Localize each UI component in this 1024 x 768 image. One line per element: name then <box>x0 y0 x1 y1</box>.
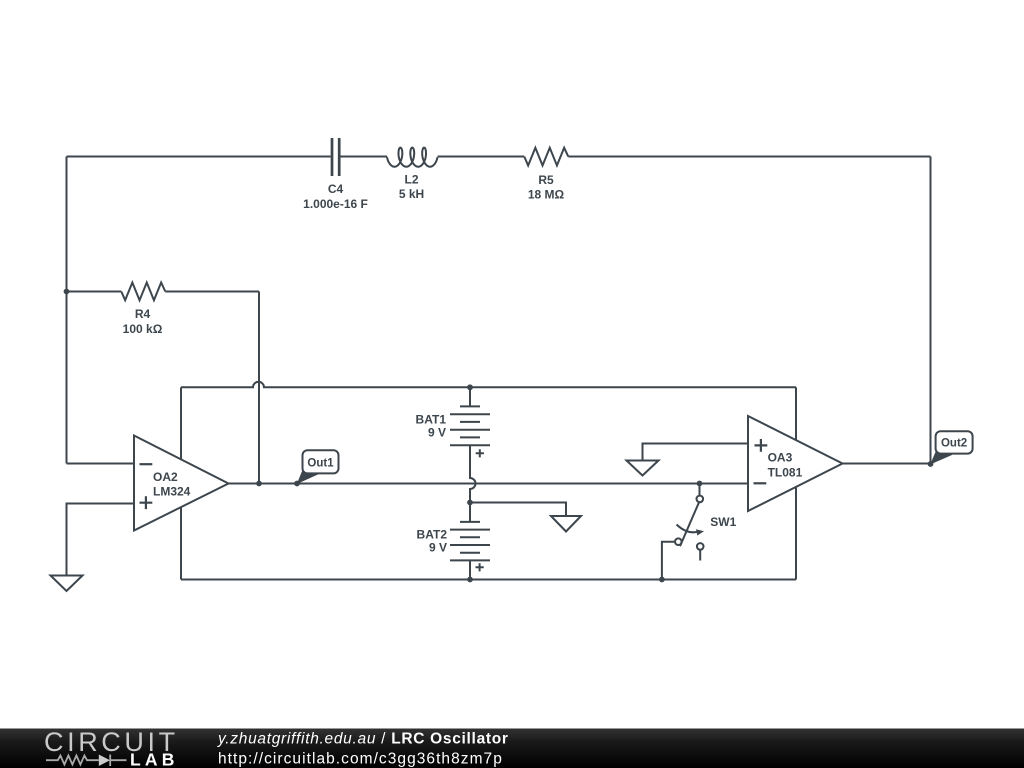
ground symbol middle <box>551 516 581 532</box>
OA3 non-inverting pin plus sign <box>755 439 768 452</box>
wire BAT2 bottom lead <box>469 560 471 579</box>
svg-text:BAT1: BAT1 <box>416 412 447 426</box>
svg-text:9 V: 9 V <box>429 541 447 555</box>
svg-text:y.zhuatgriffith.edu.au / LRC O: y.zhuatgriffith.edu.au / LRC Oscillator <box>217 731 509 748</box>
node Out1 anchor <box>294 481 300 487</box>
svg-text:R5: R5 <box>538 173 554 187</box>
svg-text:L2: L2 <box>404 173 418 187</box>
flag Out1 <box>297 450 339 484</box>
ground symbol under OA2 <box>51 576 83 592</box>
OA2 inverting pin minus sign <box>140 463 153 465</box>
ground symbol near OA3 <box>627 461 659 476</box>
battery BAT2 plates <box>450 522 490 561</box>
switch SW1 blade <box>680 502 699 546</box>
svg-text:Out2: Out2 <box>941 438 967 450</box>
wire OA3 output <box>843 463 931 465</box>
wire BAT1 top lead <box>469 387 471 406</box>
wire OA3 non-inverting input <box>643 444 749 461</box>
wire left vertical <box>66 157 68 464</box>
resistor R4 <box>121 283 165 301</box>
node Out2 anchor <box>928 461 934 467</box>
svg-text:18 MΩ: 18 MΩ <box>528 188 565 202</box>
wire bottom power rail <box>181 579 796 581</box>
wire OA2 V+ power pin <box>180 387 182 459</box>
svg-text:R4: R4 <box>135 307 151 321</box>
svg-text:OA2: OA2 <box>153 470 178 484</box>
switch SW1 throw2 stub <box>699 550 701 561</box>
node R4 left junction <box>64 289 70 295</box>
wire R4 right lead <box>165 291 259 293</box>
OA3 inverting pin minus sign <box>754 482 767 484</box>
wire OA2 inverting input <box>67 463 135 465</box>
svg-text:http://circuitlab.com/c3gg36th: http://circuitlab.com/c3gg36th8zm7p <box>218 751 503 768</box>
svg-text:OA3: OA3 <box>768 451 793 465</box>
wire OA3 V+ power pin <box>795 387 797 440</box>
wire OA2 non-inverting input <box>67 504 135 576</box>
wire OA2 output <box>229 483 749 485</box>
battery BAT2 plus sign <box>476 563 484 571</box>
svg-text:9 V: 9 V <box>428 425 446 439</box>
op-amp OA3 triangle <box>748 416 843 511</box>
svg-text:C4: C4 <box>328 182 344 196</box>
svg-text:1.000e-16 F: 1.000e-16 F <box>303 197 368 211</box>
svg-text:Out1: Out1 <box>307 457 334 469</box>
node BAT2 bottom rail junction <box>467 577 473 583</box>
svg-text:LAB: LAB <box>130 750 179 768</box>
svg-text:TL081: TL081 <box>768 465 803 479</box>
node R4/output junction <box>256 481 262 487</box>
switch SW1 throw2 circle <box>697 543 704 550</box>
OA2 non-inverting pin plus sign <box>140 496 153 509</box>
flag Out2 <box>930 431 972 464</box>
svg-text:5 kH: 5 kH <box>399 187 424 201</box>
wire top horizontal right segment <box>568 156 930 158</box>
node BAT1 top rail junction <box>467 384 473 390</box>
wire R4 left lead <box>67 291 122 293</box>
node battery midpoint junction <box>467 500 473 506</box>
wire OA3 V- power pin <box>795 487 797 580</box>
wire between C4 and L2 <box>341 156 388 158</box>
CircuitLab logo resistor-diode glyph <box>46 755 127 767</box>
wire between L2 and R5 <box>438 156 525 158</box>
wire R4 output vertical (crosses top rail) <box>258 292 260 484</box>
wire SW1 to bottom rail <box>662 542 675 580</box>
switch SW1 arc arrow <box>677 525 699 533</box>
node SW1 top junction <box>697 481 703 487</box>
battery BAT1 plus sign <box>476 449 484 457</box>
wire top power rail with hop over R4 wire <box>181 382 796 388</box>
svg-text:100 kΩ: 100 kΩ <box>123 322 163 336</box>
wire BAT2 top lead <box>469 503 471 522</box>
node SW1 bottom rail junction <box>659 577 665 583</box>
capacitor C4 <box>332 138 339 176</box>
wire middle ground branch <box>470 503 566 517</box>
wire SW1 top lead <box>699 484 701 496</box>
wire BAT1 bottom lead with hop over output wire <box>470 445 476 502</box>
switch SW1 throw1 circle <box>675 538 682 545</box>
inductor L2 <box>387 148 438 167</box>
wire top horizontal left segment <box>67 156 331 158</box>
svg-text:LM324: LM324 <box>153 485 191 499</box>
svg-text:BAT2: BAT2 <box>417 528 448 542</box>
wire OA2 V- power pin <box>180 507 182 580</box>
battery BAT1 plates <box>450 406 490 445</box>
svg-text:SW1: SW1 <box>710 515 736 529</box>
switch SW1 pole circle <box>697 496 704 503</box>
wire right vertical <box>930 157 932 464</box>
op-amp OA2 triangle <box>134 436 229 531</box>
resistor R5 <box>524 148 568 166</box>
